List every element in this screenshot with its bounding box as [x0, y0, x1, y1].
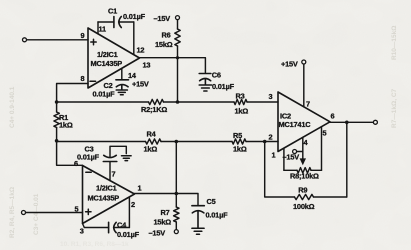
svg-text:6: 6	[331, 112, 335, 121]
svg-text:+15V: +15V	[132, 80, 149, 89]
svg-text:6: 6	[74, 159, 78, 168]
svg-text:R9: R9	[298, 186, 307, 195]
svg-text:–15V: –15V	[154, 14, 171, 23]
svg-text:R10—15kΩ: R10—15kΩ	[391, 26, 398, 60]
svg-text:10. R1, R3, R6, R8—1k: 10. R1, R3, R6, R8—1k	[60, 241, 129, 248]
svg-text:R8;10kΩ: R8;10kΩ	[290, 172, 319, 181]
svg-text:+15V: +15V	[281, 60, 298, 69]
svg-text:0.01µF: 0.01µF	[212, 82, 235, 91]
svg-text:1kΩ: 1kΩ	[233, 145, 247, 154]
svg-text:0.01µF: 0.01µF	[77, 153, 100, 162]
svg-text:C5: C5	[207, 197, 216, 206]
svg-text:9: 9	[81, 31, 85, 40]
svg-text:15kΩ: 15kΩ	[154, 218, 172, 227]
svg-text:C3+ C4—0.01: C3+ C4—0.01	[33, 193, 40, 235]
svg-text:1: 1	[272, 151, 276, 160]
svg-text:1: 1	[138, 184, 142, 193]
svg-text:0.01µF: 0.01µF	[123, 12, 146, 21]
svg-text:C6: C6	[212, 71, 221, 80]
svg-text:15kΩ: 15kΩ	[155, 40, 173, 49]
svg-text:R2;1KΩ: R2;1KΩ	[141, 105, 167, 114]
svg-text:R7—1kΩ, C7: R7—1kΩ, C7	[391, 88, 398, 128]
svg-text:0.01µF: 0.01µF	[93, 90, 116, 99]
svg-text:R7: R7	[161, 208, 170, 217]
svg-text:C4: C4	[117, 221, 127, 230]
svg-text:C1: C1	[108, 7, 117, 16]
svg-text:5: 5	[323, 129, 327, 138]
svg-text:12: 12	[137, 46, 145, 55]
svg-text:7: 7	[306, 100, 310, 109]
svg-text:1kΩ: 1kΩ	[235, 107, 249, 116]
svg-text:1kΩ: 1kΩ	[144, 145, 158, 154]
svg-text:0.01µF: 0.01µF	[117, 230, 140, 239]
svg-text:R3: R3	[236, 92, 245, 101]
svg-text:3: 3	[80, 227, 84, 236]
svg-text:R2, R4, R5—1kΩ: R2, R4, R5—1kΩ	[9, 187, 16, 238]
svg-text:2: 2	[269, 133, 273, 142]
svg-text:–15V: –15V	[283, 153, 300, 162]
svg-text:R6: R6	[162, 31, 171, 40]
svg-text:R4: R4	[147, 130, 157, 139]
svg-text:R5: R5	[233, 131, 242, 140]
svg-text:MC1435P: MC1435P	[88, 194, 120, 203]
svg-text:1/2IC1: 1/2IC1	[97, 50, 118, 59]
svg-text:1kΩ: 1kΩ	[59, 121, 73, 130]
svg-text:3: 3	[269, 92, 273, 101]
svg-text:5: 5	[75, 205, 79, 214]
svg-text:8: 8	[81, 74, 85, 83]
svg-text:13: 13	[143, 61, 151, 70]
svg-text:0.01µF: 0.01µF	[206, 211, 229, 220]
svg-text:100kΩ: 100kΩ	[293, 202, 315, 211]
svg-text:11: 11	[99, 25, 107, 34]
svg-text:MC1435P: MC1435P	[91, 59, 123, 68]
svg-text:7: 7	[112, 170, 116, 179]
svg-text:1/2IC1: 1/2IC1	[96, 184, 117, 193]
svg-text:C4+ 0.9-140.1: C4+ 0.9-140.1	[9, 86, 16, 128]
svg-text:–15V: –15V	[149, 229, 166, 238]
svg-text:MC1741C: MC1741C	[279, 120, 312, 129]
svg-text:2: 2	[131, 200, 135, 209]
